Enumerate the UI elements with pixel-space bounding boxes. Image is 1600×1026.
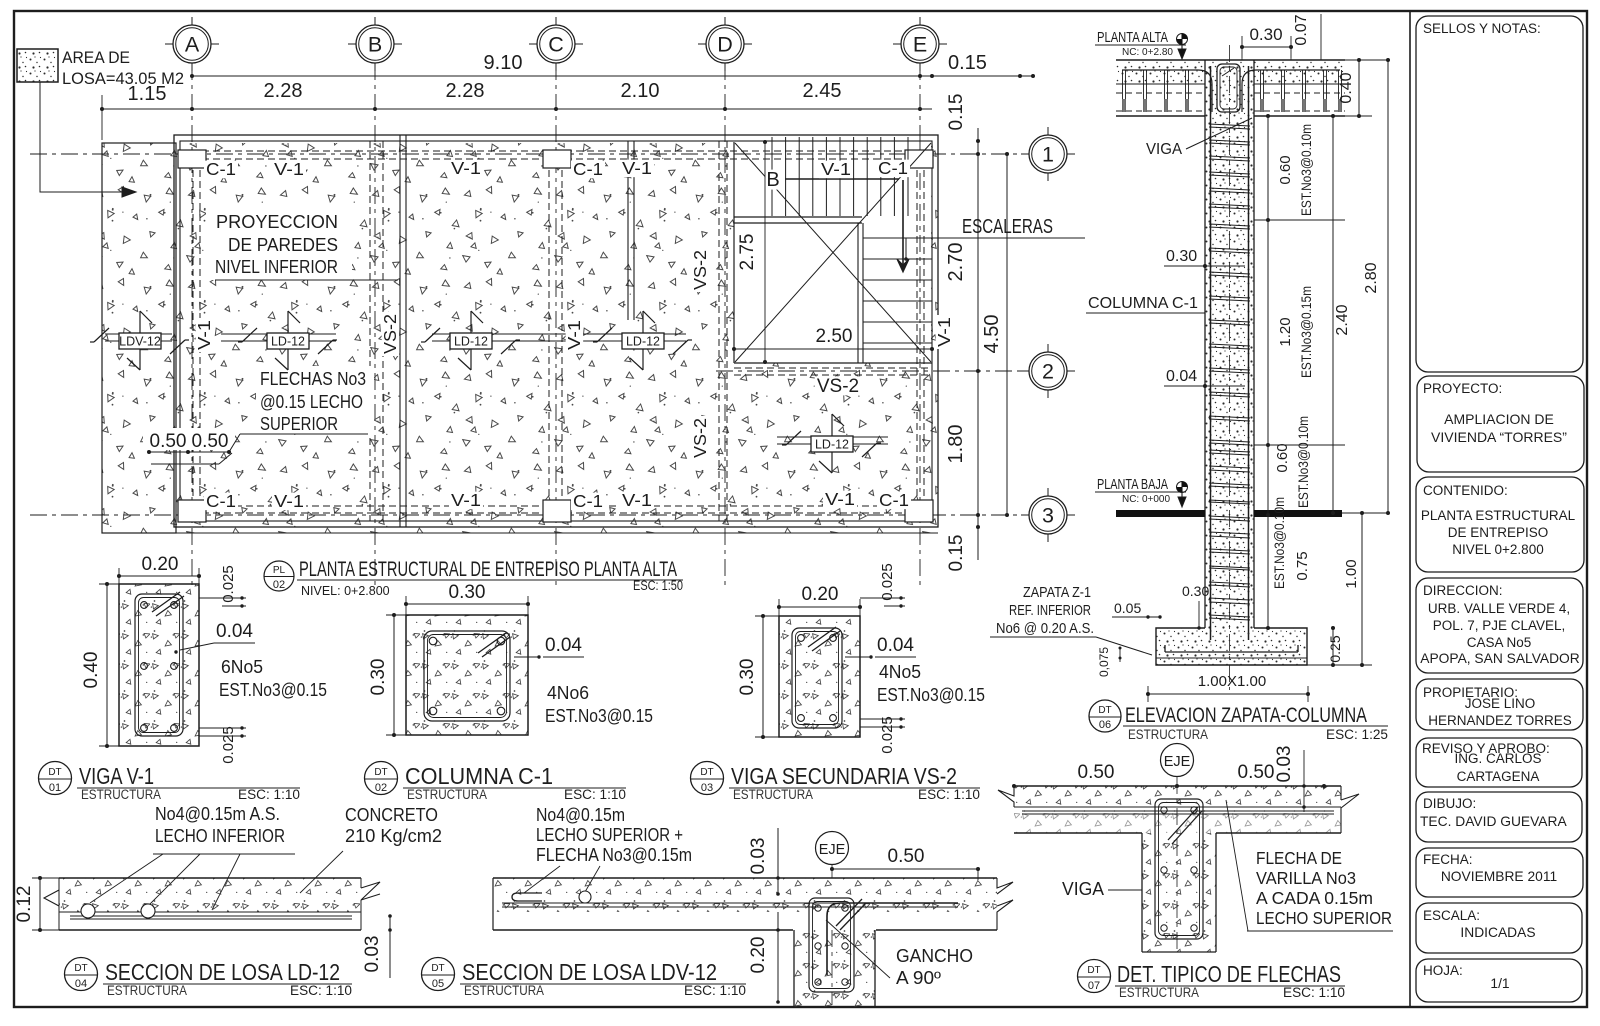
svg-text:V-1: V-1 — [934, 317, 954, 347]
note FLECHA DE VARILLA No3 — [1226, 800, 1393, 931]
note 6No5 viga v-1 — [219, 657, 327, 700]
row line 3 — [30, 514, 1029, 516]
flechas detail tee beam — [1142, 799, 1216, 952]
svg-text:FLECHA DE: FLECHA DE — [1256, 848, 1342, 868]
svg-text:0.50: 0.50 — [888, 846, 925, 867]
grid bubble B — [348, 17, 402, 71]
label V-1 rotated near C — [566, 318, 584, 352]
svg-text:V-1: V-1 — [451, 158, 481, 178]
svg-text:2.50: 2.50 — [816, 326, 853, 347]
dim 0.025 bottom vs-2 — [860, 716, 905, 754]
grid bubble A — [165, 17, 219, 71]
plan bottom edge lines — [102, 532, 938, 534]
svg-text:0.30: 0.30 — [449, 582, 486, 603]
svg-text:2.75: 2.75 — [737, 234, 758, 271]
slab label LD-12 flecha bay A-B — [221, 311, 337, 370]
svg-text:ESTRUCTURA: ESTRUCTURA — [464, 983, 544, 998]
elevation slab stirrup hooks — [1122, 70, 1342, 112]
svg-text:1.20: 1.20 — [1277, 317, 1294, 346]
title DET. TIPICO DE FLECHAS — [1078, 960, 1346, 1001]
svg-text:NIVEL: 0+2.800: NIVEL: 0+2.800 — [301, 584, 390, 598]
svg-text:DIRECCION:: DIRECCION: — [1423, 583, 1503, 598]
EJE marker flechas detail — [1161, 744, 1194, 951]
svg-text:REF. INFERIOR: REF. INFERIOR — [1009, 602, 1091, 619]
svg-text:V-1: V-1 — [194, 320, 214, 350]
svg-text:A: A — [185, 33, 200, 57]
grid bubble D — [698, 17, 752, 71]
dim 0,075 footing — [1097, 647, 1122, 678]
label VIGA elevation — [1146, 118, 1252, 158]
dim 1.00 right — [1307, 511, 1372, 667]
svg-text:V-1: V-1 — [564, 320, 584, 350]
level marker PLANTA BAJA — [1095, 476, 1188, 507]
svg-text:02: 02 — [273, 579, 285, 591]
svg-text:V-1: V-1 — [274, 491, 304, 511]
svg-text:EST.No3@0.15: EST.No3@0.15 — [545, 706, 653, 726]
svg-text:FLECHA No3@0.15m: FLECHA No3@0.15m — [536, 845, 692, 865]
title SECCION DE LOSA LDV-12 — [422, 958, 747, 999]
label VS-2 rotated at B — [382, 312, 400, 356]
grid line E — [919, 63, 921, 586]
hidden wall line top — [180, 150, 932, 152]
title ELEVACION ZAPATA-COLUMNA — [1089, 700, 1388, 742]
note CONCRETO 210 Kg/cm2 — [300, 805, 442, 893]
svg-text:03: 03 — [701, 782, 713, 794]
svg-text:C: C — [548, 33, 564, 57]
svg-text:V-1: V-1 — [622, 490, 652, 510]
note 0.30 column — [1164, 248, 1245, 268]
dim 0.07 top right — [1293, 14, 1321, 60]
svg-text:NIVEL 0+2.800: NIVEL 0+2.800 — [1452, 542, 1543, 557]
dim 0.50 0.50 — [143, 428, 240, 464]
svg-text:AMPLIACION DE: AMPLIACION DE — [1444, 411, 1554, 427]
svg-text:06: 06 — [1099, 719, 1111, 731]
svg-text:ESTRUCTURA: ESTRUCTURA — [1119, 985, 1199, 1000]
dim 0.50 gancho — [830, 846, 980, 880]
stairwell void — [734, 142, 931, 363]
svg-text:A 90º: A 90º — [896, 968, 941, 988]
label V-1 bottom AB — [272, 493, 306, 511]
svg-text:0.50: 0.50 — [1078, 762, 1115, 783]
svg-text:ESC: 1:10: ESC: 1:10 — [238, 787, 300, 802]
dim 0.025 top vs-2 — [860, 563, 905, 607]
svg-text:EJE: EJE — [819, 842, 846, 858]
svg-text:ESC: 1:10: ESC: 1:10 — [1283, 985, 1345, 1000]
svg-text:DT: DT — [1087, 965, 1100, 976]
svg-text:VS-2: VS-2 — [817, 376, 859, 397]
grid bubble C — [529, 17, 583, 71]
svg-text:LOSA=43.05 M2: LOSA=43.05 M2 — [62, 70, 184, 88]
column stirrups ladder — [1209, 124, 1250, 620]
svg-text:0.03: 0.03 — [1274, 746, 1295, 783]
dim 0.30 vs-2 — [737, 614, 779, 739]
svg-text:0.40: 0.40 — [81, 652, 102, 689]
svg-text:NIVEL INFERIOR: NIVEL INFERIOR — [215, 256, 338, 277]
svg-text:C-1: C-1 — [206, 159, 236, 179]
svg-text:2.28: 2.28 — [446, 80, 485, 102]
stair cross diagonal 2 — [735, 143, 931, 362]
svg-text:NC: 0+000: NC: 0+000 — [1122, 493, 1170, 505]
svg-text:0.50: 0.50 — [1238, 762, 1275, 783]
column C-1 box at E3 — [905, 500, 933, 522]
svg-text:0.60: 0.60 — [1277, 155, 1294, 184]
detail VIGA V-1 section — [119, 584, 199, 746]
plan title PLANTA ESTRUCTURAL DE ENTREPISO PLANTA ALTA — [264, 557, 683, 598]
label C-1 top E — [876, 160, 910, 178]
svg-text:PL: PL — [273, 565, 286, 576]
svg-text:LD-12: LD-12 — [626, 335, 660, 349]
svg-text:ESTRUCTURA: ESTRUCTURA — [733, 787, 813, 802]
svg-text:DET. TIPICO DE FLECHAS: DET. TIPICO DE FLECHAS — [1117, 961, 1341, 987]
grid bubble E — [893, 17, 947, 71]
svg-text:GANCHO: GANCHO — [896, 946, 973, 966]
wall at grid C dashed — [548, 159, 550, 506]
elevation slab band — [1116, 60, 1345, 116]
partial wall below C-1 near grid C — [627, 141, 629, 320]
svg-text:9.10: 9.10 — [484, 52, 523, 74]
dim 0.03 ldv-12 — [748, 828, 780, 896]
title block ESCALA — [1416, 903, 1582, 953]
label COLUMNA C-1 elevation — [1086, 295, 1205, 313]
svg-text:4.50: 4.50 — [981, 315, 1003, 354]
row line 2 — [716, 370, 1029, 372]
right vertical dim 0.15/2.70/1.80/0.15 — [945, 94, 980, 572]
svg-text:DE PAREDES: DE PAREDES — [228, 234, 338, 255]
svg-text:VS-2: VS-2 — [690, 250, 710, 290]
svg-text:APOPA, SAN SALVADOR: APOPA, SAN SALVADOR — [1420, 651, 1580, 666]
svg-text:VIGA: VIGA — [1062, 879, 1104, 899]
svg-text:@0.15 LECHO: @0.15 LECHO — [260, 391, 363, 412]
svg-text:0.30: 0.30 — [1166, 248, 1197, 265]
svg-text:DT: DT — [700, 767, 713, 778]
svg-text:1.00X1.00: 1.00X1.00 — [1198, 673, 1266, 690]
svg-text:0.025: 0.025 — [879, 563, 896, 601]
dim 0.03 flechas detail — [1274, 746, 1306, 812]
stair label B with line — [765, 169, 899, 191]
label V-1 bottom CD — [620, 492, 654, 510]
notes No4@0.15m A.S. LECHO INFERIOR — [90, 804, 295, 910]
title block CONTENIDO — [1416, 477, 1584, 572]
dim 0.025 bottom viga v-1 — [199, 726, 246, 764]
svg-text:B: B — [368, 33, 382, 57]
svg-text:2.28: 2.28 — [264, 80, 303, 102]
column C-1 box at C3 — [543, 500, 571, 522]
dim 2.75 stairs — [737, 140, 767, 364]
svg-text:ESTRUCTURA: ESTRUCTURA — [1128, 727, 1208, 742]
dim 0.025 top viga v-1 — [199, 565, 246, 607]
dim 0.30 top columna — [404, 582, 530, 615]
svg-text:0.30: 0.30 — [737, 659, 758, 696]
label V-1 rotated right edge — [936, 315, 954, 349]
title block FECHA — [1416, 848, 1583, 897]
row bubble 2 — [1021, 344, 1075, 398]
beam VS-2 below stairs dashed — [734, 367, 932, 369]
row line 1 — [30, 153, 1029, 155]
label C-1 top A — [204, 161, 238, 179]
svg-text:0,075: 0,075 — [1097, 647, 1111, 677]
title SECCION DE LOSA LD-12 — [65, 958, 353, 999]
svg-text:2.80: 2.80 — [1363, 262, 1380, 293]
row line 1 across stairwell — [734, 153, 931, 155]
svg-text:0.04: 0.04 — [216, 621, 253, 642]
svg-text:HERNANDEZ TORRES: HERNANDEZ TORRES — [1428, 713, 1572, 728]
detail VIGA SECUNDARIA VS-2 section — [779, 616, 860, 737]
svg-text:VIGA: VIGA — [1146, 141, 1182, 158]
svg-text:EST.No3@0.10m: EST.No3@0.10m — [1299, 124, 1314, 216]
label VS-2 rotated at D lower — [692, 416, 710, 460]
dim 0.40 slab right — [1338, 58, 1372, 118]
column C-1 body — [1205, 60, 1254, 640]
title block PROYECTO — [1417, 376, 1584, 472]
detail COLUMNA C-1 section — [406, 615, 528, 735]
svg-text:0.15: 0.15 — [946, 535, 967, 572]
svg-text:0.04: 0.04 — [877, 635, 914, 656]
svg-text:JOSE LINO: JOSE LINO — [1465, 696, 1536, 711]
svg-text:CONCRETO: CONCRETO — [345, 805, 438, 825]
svg-text:No4@0.15m: No4@0.15m — [536, 805, 625, 825]
svg-text:LECHO INFERIOR: LECHO INFERIOR — [155, 826, 285, 846]
EJE marker ldv-12 — [816, 832, 849, 1006]
svg-text:EST.No3@0.15: EST.No3@0.15 — [219, 680, 327, 700]
losa LDV-12 tee stem with gancho — [794, 898, 958, 1007]
slab label LD-12 flecha bay C-D — [593, 311, 692, 370]
svg-text:DT: DT — [374, 767, 387, 778]
svg-text:2: 2 — [1042, 360, 1054, 384]
label V-1 top AB — [272, 161, 306, 179]
dim 0.20 ldv-12 — [748, 912, 780, 1004]
slab label LD-12 flecha bay D-E — [777, 414, 888, 473]
dim 0.03 ld-12 — [362, 914, 392, 978]
svg-text:2.10: 2.10 — [621, 80, 660, 102]
dim 0.50 0.50 flechas detail — [1012, 762, 1326, 788]
svg-text:0.03: 0.03 — [362, 936, 383, 973]
svg-text:3: 3 — [1042, 504, 1054, 528]
title VIGA SECUNDARIA VS-2 — [691, 762, 981, 803]
svg-text:C-1: C-1 — [878, 158, 908, 178]
svg-text:TEC. DAVID GUEVARA: TEC. DAVID GUEVARA — [1420, 814, 1567, 829]
svg-text:ZAPATA Z-1: ZAPATA Z-1 — [1023, 584, 1091, 601]
grid line C — [555, 63, 557, 586]
svg-text:ESC: 1:10: ESC: 1:10 — [564, 787, 626, 802]
svg-text:VARILLA No3: VARILLA No3 — [1256, 868, 1356, 888]
svg-text:URB. VALLE VERDE 4,: URB. VALLE VERDE 4, — [1428, 601, 1570, 616]
svg-text:0.50: 0.50 — [192, 431, 229, 452]
svg-text:COLUMNA C-1: COLUMNA C-1 — [405, 763, 553, 789]
label V-1 top CD — [620, 160, 654, 178]
svg-text:B: B — [766, 169, 779, 191]
ground level bars — [1116, 510, 1205, 517]
svg-text:LECHO SUPERIOR +: LECHO SUPERIOR + — [536, 825, 683, 845]
svg-text:ELEVACION ZAPATA-COLUMNA: ELEVACION ZAPATA-COLUMNA — [1125, 704, 1367, 727]
label V-1 rotated near A — [196, 318, 214, 352]
stair left edge — [733, 142, 735, 363]
svg-text:C-1: C-1 — [206, 491, 236, 511]
wall right of grid B — [399, 135, 401, 527]
svg-text:PROYECCION: PROYECCION — [216, 211, 338, 232]
svg-text:05: 05 — [432, 978, 444, 990]
svg-text:1/1: 1/1 — [1490, 976, 1509, 991]
svg-text:ESC: 1:10: ESC: 1:10 — [290, 983, 352, 998]
svg-text:0.025: 0.025 — [879, 716, 896, 754]
dim 0.20 viga v-1 — [117, 554, 201, 584]
svg-text:AREA DE: AREA DE — [62, 49, 130, 67]
dim line 9.10 overall — [190, 52, 1035, 78]
svg-text:FLECHAS No3: FLECHAS No3 — [260, 368, 366, 389]
svg-text:210 Kg/cm2: 210 Kg/cm2 — [345, 826, 442, 846]
row bubble 1 — [1021, 127, 1075, 181]
svg-text:DIBUJO:: DIBUJO: — [1423, 796, 1476, 811]
slab label LDV-12 flecha — [90, 311, 189, 370]
svg-text:04: 04 — [75, 978, 87, 990]
svg-text:PLANTA BAJA: PLANTA BAJA — [1097, 476, 1168, 493]
svg-text:0.20: 0.20 — [142, 554, 179, 575]
svg-text:0.04: 0.04 — [1166, 368, 1197, 385]
ESCALERAS label and leader — [904, 216, 1085, 261]
dim 0.05 footing — [1112, 600, 1162, 619]
losa LDV-12 section band — [493, 878, 1013, 930]
column C-1 box at E1 — [905, 150, 933, 168]
svg-text:V-1: V-1 — [821, 159, 851, 179]
svg-text:PLANTA ESTRUCTURAL: PLANTA ESTRUCTURAL — [1421, 508, 1576, 523]
beam VS-2 at grid B dashed — [369, 141, 371, 521]
svg-text:COLUMNA C-1: COLUMNA C-1 — [1088, 295, 1198, 312]
AREA DE LOSA callout — [17, 49, 184, 197]
svg-text:ESTRUCTURA: ESTRUCTURA — [81, 787, 161, 802]
svg-text:ESC: 1:10: ESC: 1:10 — [918, 787, 980, 802]
svg-text:1.00: 1.00 — [1343, 559, 1360, 588]
svg-text:4No5: 4No5 — [879, 662, 921, 682]
title block separator — [1409, 11, 1411, 1007]
label C-1 bottom C — [571, 493, 605, 511]
title block SELLOS Y NOTAS — [1416, 16, 1583, 372]
plan inner slab boundary — [180, 141, 932, 521]
svg-text:LECHO SUPERIOR: LECHO SUPERIOR — [1256, 908, 1392, 928]
title block DIBUJO — [1416, 792, 1582, 842]
title block REVISO Y APROBO — [1416, 738, 1582, 787]
svg-text:2.45: 2.45 — [803, 80, 842, 102]
svg-text:0.40: 0.40 — [1338, 72, 1355, 103]
stair cross diagonal 1 — [735, 143, 931, 362]
dim 0.30 top of column — [1240, 25, 1293, 60]
svg-text:LD-12: LD-12 — [815, 438, 849, 452]
svg-text:DT: DT — [1098, 705, 1111, 716]
dim 0.04 vs-2 — [845, 635, 916, 659]
svg-text:DE ENTREPISO: DE ENTREPISO — [1448, 525, 1549, 540]
label C-1 top C — [571, 161, 605, 179]
stair inner rail — [857, 223, 859, 363]
svg-text:EST.No3@0.10m: EST.No3@0.10m — [1272, 497, 1287, 589]
title COLUMNA C-1 — [365, 762, 627, 803]
svg-text:CONTENIDO:: CONTENIDO: — [1423, 483, 1508, 498]
dim 0.20 vs-2 — [777, 584, 862, 616]
svg-text:ESTRUCTURA: ESTRUCTURA — [407, 787, 487, 802]
svg-text:POL. 7, PJE CLAVEL,: POL. 7, PJE CLAVEL, — [1433, 618, 1566, 633]
svg-text:0.25: 0.25 — [1327, 635, 1343, 662]
note 4No5 vs-2 — [877, 662, 985, 705]
dim 0.04 columna — [514, 635, 584, 659]
zapata footing — [1156, 628, 1307, 665]
svg-text:02: 02 — [375, 782, 387, 794]
column C-1 box at C1 — [543, 150, 571, 168]
svg-text:EST.No3@0.15m: EST.No3@0.15m — [1299, 286, 1314, 378]
svg-text:2.70: 2.70 — [945, 243, 967, 282]
svg-text:INDICADAS: INDICADAS — [1460, 925, 1535, 940]
label V-1 stairs — [819, 161, 853, 179]
svg-text:0.025: 0.025 — [220, 565, 237, 603]
svg-text:ESC: 1:25: ESC: 1:25 — [1326, 727, 1388, 742]
notes No4@0.15m LECHO SUPERIOR + FLECHA No3@0.15m — [524, 805, 692, 893]
column centerline — [1229, 45, 1231, 690]
label V-1 bottom DE — [823, 491, 857, 509]
svg-text:0.30: 0.30 — [1182, 583, 1209, 599]
losa LD-12 section — [44, 878, 380, 930]
svg-text:ESTRUCTURA: ESTRUCTURA — [107, 983, 187, 998]
wall at grid A — [192, 159, 194, 506]
svg-text:SELLOS Y NOTAS:: SELLOS Y NOTAS: — [1423, 21, 1541, 36]
svg-text:D: D — [717, 33, 733, 57]
label V-1 top BC — [449, 160, 483, 178]
svg-text:PLANTA ALTA: PLANTA ALTA — [1097, 29, 1168, 46]
svg-text:V-1: V-1 — [825, 489, 855, 509]
svg-text:A CADA 0.15m: A CADA 0.15m — [1256, 888, 1373, 908]
svg-text:EST.No3@0.10m: EST.No3@0.10m — [1296, 416, 1311, 508]
svg-text:1: 1 — [1042, 143, 1054, 167]
svg-text:VS-2: VS-2 — [690, 418, 710, 458]
svg-text:DT: DT — [48, 767, 61, 778]
svg-text:0.20: 0.20 — [748, 937, 769, 974]
svg-text:0.50: 0.50 — [150, 431, 187, 452]
dim 0.04 viga v-1 — [174, 621, 255, 654]
svg-text:0.15: 0.15 — [948, 52, 987, 74]
svg-text:2.40: 2.40 — [1334, 304, 1351, 335]
column C-1 box at A1 — [178, 150, 206, 168]
svg-text:0.03: 0.03 — [748, 838, 769, 875]
grid line E across stairwell — [919, 142, 921, 363]
hidden wall line bottom — [180, 505, 932, 507]
label C-1 bottom A — [204, 493, 238, 511]
svg-text:6No5: 6No5 — [221, 657, 263, 677]
svg-text:DT: DT — [74, 963, 87, 974]
dim 0.30 left columna — [368, 613, 406, 737]
svg-text:ESC: 1:10: ESC: 1:10 — [684, 983, 746, 998]
svg-text:01: 01 — [49, 782, 61, 794]
svg-text:PROYECTO:: PROYECTO: — [1423, 381, 1502, 396]
svg-text:0.20: 0.20 — [802, 584, 839, 605]
svg-text:0.05: 0.05 — [1114, 600, 1141, 616]
dim 1.00X1.00 — [1146, 673, 1310, 702]
svg-text:0.30: 0.30 — [1249, 25, 1282, 44]
svg-text:VIVIENDA “TORRES”: VIVIENDA “TORRES” — [1431, 429, 1567, 445]
column C-1 box at A3 — [178, 500, 206, 522]
grid line B — [374, 63, 376, 586]
dim 2.40 — [1331, 114, 1351, 515]
svg-text:C-1: C-1 — [573, 159, 603, 179]
svg-text:SECCION DE LOSA LDV-12: SECCION DE LOSA LDV-12 — [462, 959, 717, 985]
title block DIRECCION — [1416, 578, 1583, 673]
beam at grid D dashed — [718, 141, 720, 521]
elevation slab top bars with elbows — [1122, 70, 1212, 112]
dim 0.12 ld-12 — [14, 876, 59, 932]
svg-text:EST.No3@0.15: EST.No3@0.15 — [877, 685, 985, 705]
svg-text:1.80: 1.80 — [945, 425, 967, 464]
svg-text:0.025: 0.025 — [220, 726, 237, 764]
beam section at joint — [1217, 64, 1240, 112]
svg-text:V-1: V-1 — [274, 159, 304, 179]
svg-text:NC: 0+2.80: NC: 0+2.80 — [1122, 46, 1173, 58]
svg-text:0.07: 0.07 — [1293, 14, 1310, 45]
svg-text:No6 @ 0.20 A.S.: No6 @ 0.20 A.S. — [996, 620, 1094, 637]
note ZAPATA Z-1 — [990, 584, 1152, 655]
